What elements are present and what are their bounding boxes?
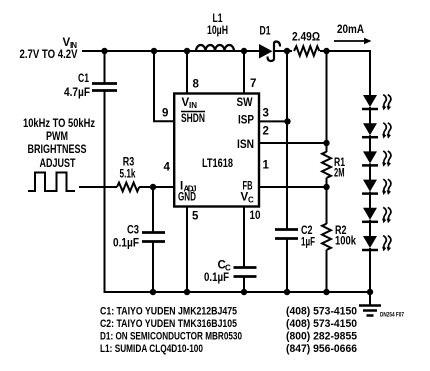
label 20mA current arrow [334,24,372,44]
wire LED1-LED2 [369,107,371,124]
svg-text:D1: D1 [260,26,271,38]
svg-text:0.1µF: 0.1µF [204,272,229,284]
LED 2 [362,123,391,139]
svg-text:C1: TAIYO YUDEN JMK212BJ475: C1: TAIYO YUDEN JMK212BJ475 [100,305,237,317]
LED 3 [362,151,391,167]
capacitor C1 [64,51,117,293]
capacitor C3 [113,187,165,293]
node junction FB / R1-R2 [323,184,329,190]
svg-text:SHDN: SHDN [181,113,205,125]
LED 5 [362,207,391,223]
ground [359,292,381,316]
svg-text:ADJUST: ADJUST [40,158,76,170]
inductor L1 [187,13,244,51]
node junction rail C2 [284,289,290,295]
node junction ISN / R1 tap [323,48,329,54]
svg-text:IN: IN [189,101,197,110]
svg-text:1: 1 [263,160,270,172]
IC U1 LT1618 [174,94,259,207]
wire LED4-LED5 [369,192,371,209]
svg-text:L1: SUMIDA CLQ4D10-100: L1: SUMIDA CLQ4D10-100 [100,343,203,355]
node junction IADJ / C3 tap [150,184,156,190]
capacitor C2 [275,225,315,293]
node junction pin 7 / SW [241,48,247,54]
node junction pin3 on C2 vertical [284,118,290,124]
svg-text:2.49Ω: 2.49Ω [292,32,320,44]
LED 6 [362,236,391,252]
svg-text:C1: C1 [78,73,89,85]
node junction ISN / R1 top [323,140,329,146]
label PWM brightness adjust [23,118,95,170]
svg-text:5.1k: 5.1k [120,169,136,181]
svg-text:R3: R3 [123,157,135,169]
svg-text:10kHz TO 50kHz: 10kHz TO 50kHz [23,118,95,130]
wire PWM input to R3 [79,186,117,188]
wire LED5-LED6 [369,220,371,237]
svg-text:4.7µF: 4.7µF [64,87,90,99]
svg-text:(408) 573-4150: (408) 573-4150 [286,318,357,330]
wire LED string vertical top [369,50,371,96]
svg-text:D1: ON SEMICONDUCTOR MBR0530: D1: ON SEMICONDUCTOR MBR0530 [100,330,242,342]
wire LED3-LED4 [369,163,371,180]
node junction pin 8 / L1 left [184,48,190,54]
svg-text:GND: GND [178,192,196,204]
wire pin 10 VC stub [243,207,245,267]
svg-text:10: 10 [250,210,261,222]
svg-text:8: 8 [193,79,200,91]
resistor R2 [322,224,356,250]
svg-text:2.7V TO 4.2V: 2.7V TO 4.2V [20,49,78,61]
wire R2 to rail [326,250,328,293]
node junction rail R2 [323,289,329,295]
svg-text:(847) 956-0666: (847) 956-0666 [286,343,357,355]
node junction rail LED string [367,289,373,295]
svg-text:LT1618: LT1618 [202,156,233,170]
resistor 2.49ohm sense [292,32,320,56]
svg-text:SW: SW [237,97,253,109]
svg-text:100k: 100k [335,236,356,248]
svg-text:DN254 F07: DN254 F07 [380,312,404,319]
wire SHDN pin 9 branch [154,51,175,121]
LED 1 [362,95,391,111]
node junction ISP / C2 tap [284,48,290,54]
svg-text:7: 7 [250,78,256,90]
node junction SHDN tap [151,48,157,54]
wire pin 5 GND stub [186,207,188,293]
wire L1 to D1 anode [235,50,259,52]
wire LED string bottom to rail [369,248,371,293]
wire R1 to FB node [326,178,328,224]
node junction rail C3 [150,289,156,295]
wire pin 3 ISP to C2 branch [258,120,287,122]
svg-text:3: 3 [263,108,269,120]
LED 4 [362,179,391,195]
resistor R1 [322,152,345,180]
node junction C1 tap [101,48,107,54]
svg-text:L1: L1 [213,13,223,25]
wire bottom ground rail [105,291,371,293]
waveform square wave symbol [28,173,75,192]
node VIN input label [20,37,78,61]
svg-text:C2: TAIYO YUDEN TMK316BJ105: C2: TAIYO YUDEN TMK316BJ105 [100,318,237,330]
wire top rail from VIN to L1 [82,50,195,52]
svg-text:(408) 573-4150: (408) 573-4150 [286,305,357,317]
svg-text:C3: C3 [127,225,139,237]
node junction rail pin5 [184,289,190,295]
wire sense resistor to LED string top [320,50,371,52]
svg-text:ISP: ISP [238,115,254,127]
svg-text:BRIGHTNESS: BRIGHTNESS [28,144,87,156]
svg-text:2: 2 [263,126,269,138]
wire pin 1 FB [259,186,327,188]
svg-text:1µF: 1µF [301,237,315,249]
svg-text:PWM: PWM [46,131,68,143]
wire LED2-LED3 [369,135,371,152]
svg-text:C: C [248,196,254,205]
node junction rail CC [241,289,247,295]
wire R3 to pin 4 [139,186,175,188]
svg-text:C2: C2 [301,225,313,237]
svg-text:2M: 2M [334,168,345,180]
svg-text:5: 5 [192,211,199,223]
wire ISN vertical upper [326,51,328,152]
wire pin 2 ISN [259,142,327,144]
svg-text:4: 4 [164,162,171,174]
svg-text:20mA: 20mA [337,24,364,36]
wire pin 7 stub [243,51,245,93]
svg-text:(800) 282-9855: (800) 282-9855 [286,330,357,342]
wire ISP/C2 vertical [286,51,288,229]
resistor R3 [117,157,139,192]
capacitor CC [204,260,257,294]
svg-text:10µH: 10µH [207,25,228,37]
wire D1 cathode to sense resistor [275,50,292,52]
wire pin 8 stub [186,51,188,93]
svg-text:0.1µF: 0.1µF [113,238,139,250]
svg-text:ISN: ISN [237,139,254,151]
svg-text:9: 9 [162,108,168,120]
diode D1 schottky [259,26,280,62]
